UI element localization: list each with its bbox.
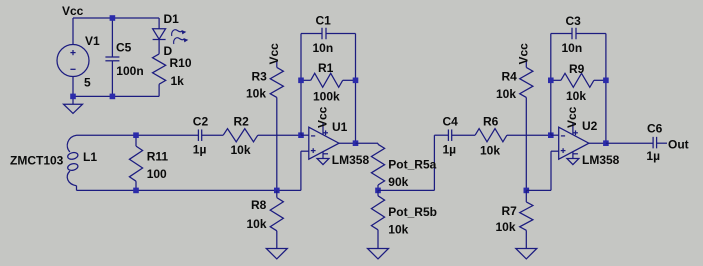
svg-text:10k: 10k	[231, 143, 251, 157]
svg-text:10n: 10n	[313, 41, 334, 55]
svg-text:10k: 10k	[496, 220, 516, 234]
svg-text:Vcc: Vcc	[565, 106, 579, 128]
svg-text:C2: C2	[193, 115, 209, 129]
svg-text:R10: R10	[170, 56, 192, 70]
svg-text:R4: R4	[502, 70, 518, 84]
svg-text:100n: 100n	[116, 64, 143, 78]
svg-text:U1: U1	[332, 120, 348, 134]
svg-text:V1: V1	[85, 34, 100, 48]
svg-text:C4: C4	[443, 115, 459, 129]
svg-text:10k: 10k	[246, 87, 266, 101]
svg-text:R6: R6	[483, 115, 499, 129]
svg-text:Out: Out	[668, 138, 689, 152]
svg-text:1µ: 1µ	[443, 143, 457, 157]
svg-text:100: 100	[147, 167, 167, 181]
svg-text:L1: L1	[83, 150, 97, 164]
svg-text:LM358: LM358	[332, 153, 370, 167]
svg-text:10k: 10k	[480, 144, 500, 158]
svg-text:LM358: LM358	[582, 153, 620, 167]
svg-text:10k: 10k	[566, 89, 586, 103]
svg-text:1k: 1k	[171, 74, 185, 88]
svg-text:C3: C3	[566, 14, 582, 28]
svg-text:Pot_R5a: Pot_R5a	[388, 157, 436, 171]
svg-text:R11: R11	[147, 149, 169, 163]
svg-text:R2: R2	[234, 115, 250, 129]
svg-text:R9: R9	[569, 62, 585, 76]
svg-text:5: 5	[84, 76, 91, 90]
svg-text:10k: 10k	[247, 217, 267, 231]
svg-text:U2: U2	[582, 119, 598, 133]
svg-text:100k: 100k	[313, 90, 340, 104]
svg-text:C5: C5	[116, 41, 132, 55]
svg-text:C6: C6	[647, 122, 663, 136]
svg-text:D1: D1	[164, 12, 180, 26]
svg-text:Vcc: Vcc	[315, 106, 329, 128]
svg-text:10k: 10k	[496, 87, 516, 101]
svg-text:R8: R8	[251, 198, 267, 212]
svg-text:R1: R1	[318, 61, 334, 75]
svg-text:10n: 10n	[562, 41, 583, 55]
svg-text:10k: 10k	[388, 222, 408, 236]
svg-text:1µ: 1µ	[193, 143, 207, 157]
svg-text:Pot_R5b: Pot_R5b	[388, 205, 437, 219]
svg-text:1µ: 1µ	[646, 149, 660, 163]
svg-text:R3: R3	[252, 70, 268, 84]
svg-text:Vcc: Vcc	[62, 4, 84, 18]
svg-text:C1: C1	[316, 14, 332, 28]
svg-text:90k: 90k	[388, 175, 408, 189]
svg-text:Vcc: Vcc	[267, 43, 281, 65]
svg-text:Vcc: Vcc	[517, 43, 531, 65]
svg-text:R7: R7	[502, 204, 518, 218]
svg-text:ZMCT103: ZMCT103	[10, 154, 64, 168]
